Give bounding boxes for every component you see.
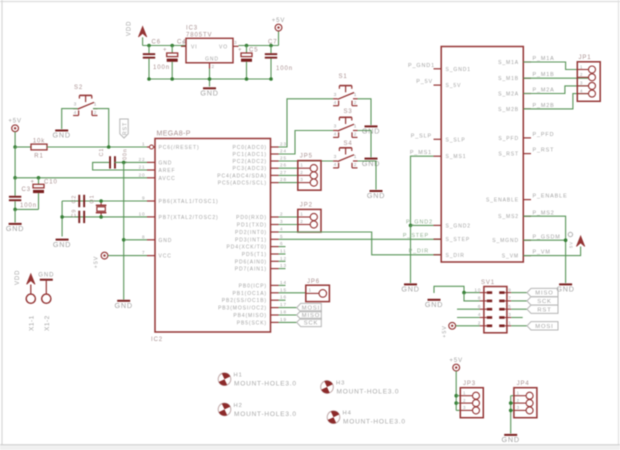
crystal Q1 — [90, 195, 107, 217]
svg-text:1: 1 — [354, 154, 358, 160]
svg-text:PC6(/RESET): PC6(/RESET) — [159, 145, 200, 151]
supply +5V left — [8, 119, 22, 148]
svg-text:MOSI: MOSI — [535, 324, 553, 330]
svg-text:4: 4 — [334, 162, 338, 168]
net label P_STEP — [403, 233, 429, 239]
svg-text:PB7(XTAL2/TOSC2): PB7(XTAL2/TOSC2) — [159, 215, 219, 221]
svg-text:IC2: IC2 — [151, 337, 163, 343]
svg-text:S_M1B: S_M1B — [498, 76, 519, 82]
svg-text:PC0(ADC0): PC0(ADC0) — [233, 145, 268, 151]
wire SV1 pin4 — [457, 317, 480, 319]
svg-text:7: 7 — [508, 296, 511, 301]
svg-text:13: 13 — [280, 263, 287, 268]
svg-text:28: 28 — [280, 177, 287, 182]
connector JP1 — [577, 55, 600, 101]
svg-text:9: 9 — [508, 287, 511, 292]
svg-text:GND: GND — [53, 240, 71, 249]
net flag RST right — [527, 305, 558, 313]
net label P_PFD — [533, 132, 555, 138]
svg-text:15: 15 — [280, 287, 287, 292]
svg-text:JP6: JP6 — [307, 279, 320, 285]
svg-text:10: 10 — [474, 287, 481, 292]
svg-text:21: 21 — [139, 165, 146, 170]
svg-text:GND: GND — [502, 435, 520, 444]
svg-text:P_GND1: P_GND1 — [408, 63, 435, 69]
svg-text:1: 1 — [300, 163, 303, 168]
svg-text:C9: C9 — [72, 209, 78, 218]
connector JP2 — [298, 202, 321, 232]
svg-text:C10: C10 — [44, 180, 58, 186]
capacitor C6 — [143, 40, 170, 80]
wire P_M1A to JP1 — [523, 62, 588, 70]
svg-text:1: 1 — [354, 124, 358, 130]
net label P_SLP — [411, 133, 432, 139]
switch S2 — [73, 85, 97, 116]
svg-text:P_VM: P_VM — [533, 250, 551, 256]
wire JP4 pins — [511, 396, 514, 434]
svg-text:PD1(TXD): PD1(TXD) — [237, 223, 267, 229]
wire PB1 to JP6 — [279, 292, 306, 294]
svg-text:+5V: +5V — [8, 119, 22, 125]
net flag MISO right — [527, 288, 558, 296]
svg-text:18: 18 — [280, 310, 287, 315]
svg-text:H1: H1 — [234, 373, 243, 379]
wire JP3 pins — [456, 396, 460, 411]
svg-text:4: 4 — [478, 312, 481, 317]
supply marker small — [568, 232, 573, 248]
switch S1 — [333, 74, 357, 106]
svg-text:+: + — [238, 48, 242, 54]
capacitor C5 — [238, 46, 258, 80]
svg-text:2: 2 — [463, 398, 466, 403]
svg-text:R1: R1 — [34, 153, 43, 159]
wire crystal left vertical — [61, 201, 63, 237]
ground driver logic — [401, 284, 419, 293]
svg-text:+: + — [31, 180, 35, 186]
wire SV1 pin7 SCK — [511, 300, 527, 302]
ground S3 — [362, 159, 380, 168]
svg-text:PD0(RXD): PD0(RXD) — [236, 215, 267, 221]
svg-text:2: 2 — [354, 162, 358, 168]
svg-text:P_ENABLE: P_ENABLE — [533, 194, 568, 200]
junction C7 top — [269, 44, 273, 48]
svg-text:+5V: +5V — [442, 325, 448, 337]
ground JP4 — [502, 435, 520, 444]
svg-text:6: 6 — [280, 241, 283, 246]
svg-text:MOUNT-HOLE3.0: MOUNT-HOLE3.0 — [343, 419, 406, 426]
svg-text:2: 2 — [280, 212, 283, 217]
svg-text:+5V: +5V — [449, 358, 463, 364]
wire XTAL2 line — [62, 216, 147, 218]
svg-text:2: 2 — [212, 64, 215, 69]
svg-text:S_RST: S_RST — [498, 152, 519, 158]
junction JP4 pin3 — [509, 409, 513, 413]
svg-text:4: 4 — [280, 227, 283, 232]
ground MCU — [115, 301, 133, 310]
svg-text:PB0(ICP): PB0(ICP) — [239, 283, 267, 289]
net flag MISO — [297, 311, 322, 319]
wire SV1 pin1 MOSI — [511, 325, 527, 327]
svg-text:3: 3 — [280, 219, 283, 224]
svg-text:VDD: VDD — [127, 21, 133, 36]
svg-text:9: 9 — [142, 196, 145, 201]
svg-text:19: 19 — [280, 317, 287, 322]
regulator IC3 7805TV — [181, 26, 239, 70]
wire XTAL1 line — [62, 200, 147, 202]
svg-text:JP2: JP2 — [300, 202, 313, 208]
net label P_MS1 — [410, 150, 432, 156]
svg-text:X1-1: X1-1 — [28, 315, 35, 331]
svg-text:S_MS1: S_MS1 — [446, 154, 467, 160]
svg-text:5: 5 — [508, 304, 511, 309]
svg-text:RST: RST — [122, 122, 128, 135]
net label P_RST — [533, 148, 555, 154]
svg-text:S2: S2 — [74, 85, 83, 91]
mount hole H1 — [216, 371, 297, 388]
svg-text:GND: GND — [362, 159, 380, 168]
junction JP3 pin2 — [454, 401, 458, 405]
wire regulator VO to +5V rail — [239, 45, 279, 47]
svg-text:S_GND2: S_GND2 — [446, 223, 471, 229]
junction P_GND2 — [409, 224, 413, 228]
svg-text:10: 10 — [139, 211, 146, 216]
wire SV1 pin9 MISO — [511, 292, 527, 294]
junction gnd rail IC3 — [208, 77, 212, 81]
wire P_M1B to JP1 — [523, 77, 588, 79]
svg-text:PB4(MISO): PB4(MISO) — [233, 313, 267, 319]
ground flag X1-2 — [38, 273, 54, 295]
svg-text:100n: 100n — [276, 66, 293, 72]
connector JP4 — [514, 381, 537, 418]
svg-text:PD4(XCK/T0): PD4(XCK/T0) — [227, 245, 267, 251]
wire PD5 stub — [279, 253, 286, 255]
ground crystal — [53, 240, 71, 249]
connector JP6 — [306, 279, 330, 302]
junction gnd rail C4 — [170, 77, 174, 81]
svg-text:S_M2A: S_M2A — [498, 92, 519, 98]
svg-text:GND: GND — [205, 57, 219, 63]
junction gnd rail C5 — [245, 77, 249, 81]
wire SV1 pin6 — [457, 308, 480, 310]
svg-text:PB6(XTAL1/TOSC1): PB6(XTAL1/TOSC1) — [159, 199, 219, 205]
svg-text:1: 1 — [517, 391, 520, 396]
wire PB2 stub — [279, 299, 286, 301]
svg-text:GND: GND — [556, 285, 574, 294]
connector JP5 — [298, 154, 321, 191]
wire regulator ground rail — [149, 69, 271, 87]
wire PD4 stub — [279, 246, 286, 248]
wire P_M2A to JP1 — [523, 86, 588, 94]
svg-text:7805TV: 7805TV — [186, 33, 212, 39]
svg-text:2: 2 — [580, 72, 583, 77]
svg-text:2: 2 — [517, 398, 520, 403]
svg-text:C7: C7 — [268, 40, 277, 46]
net label P_5V — [416, 79, 433, 85]
svg-text:PB3(MOSI/OC2): PB3(MOSI/OC2) — [218, 306, 267, 312]
svg-text:2: 2 — [300, 219, 303, 224]
ground regulator — [200, 88, 218, 97]
svg-text:GND: GND — [367, 191, 385, 200]
svg-text:3: 3 — [508, 312, 511, 317]
svg-text:S_5V: S_5V — [446, 83, 462, 89]
junction gnd rail C7 — [269, 77, 273, 81]
svg-text:24: 24 — [280, 149, 287, 154]
svg-text:GND: GND — [38, 273, 54, 279]
svg-text:P_GSDM: P_GSDM — [533, 234, 561, 240]
svg-text:P_DIR: P_DIR — [409, 249, 429, 255]
svg-text:+5V: +5V — [272, 18, 286, 24]
svg-text:100n: 100n — [20, 203, 37, 209]
svg-text:PC1(ADC1): PC1(ADC1) — [233, 152, 268, 158]
capacitor C10 — [31, 178, 58, 210]
wire +5V to R1 — [15, 146, 31, 148]
wire PC5 to JP5 pin3 — [279, 182, 298, 184]
wire gnd vertical — [123, 162, 125, 299]
svg-text:3: 3 — [334, 154, 338, 160]
svg-text:+5V: +5V — [94, 256, 100, 268]
terminal X1-1 — [26, 294, 35, 331]
wire S2 left to ground — [62, 109, 78, 129]
svg-text:25: 25 — [280, 156, 287, 161]
svg-text:PC3(ADC3): PC3(ADC3) — [233, 166, 268, 172]
svg-text:S_SLP: S_SLP — [446, 137, 466, 143]
net label P_M1B — [533, 72, 555, 78]
svg-text:10k: 10k — [33, 138, 45, 144]
wire SV1 pin5 RST — [511, 308, 527, 310]
svg-text:4: 4 — [334, 100, 338, 106]
switch S4 — [333, 141, 357, 168]
wire PB5 SCK — [279, 321, 297, 323]
svg-text:23: 23 — [280, 142, 287, 147]
wire PC1 to S3 — [279, 131, 334, 155]
capacitor C9 — [72, 209, 86, 223]
junction JP3 pin1 — [454, 394, 458, 398]
wire P_GND2 to ground — [410, 225, 412, 283]
svg-text:3: 3 — [334, 124, 338, 130]
wire AVCC rail — [15, 177, 147, 179]
svg-text:PC2(ADC2): PC2(ADC2) — [233, 159, 268, 165]
svg-text:IC3: IC3 — [186, 26, 198, 32]
net label RST flag — [120, 119, 129, 138]
svg-text:1: 1 — [300, 212, 303, 217]
svg-text:SV1: SV1 — [481, 280, 495, 286]
junction C4 top — [170, 44, 174, 48]
svg-text:1: 1 — [463, 391, 466, 396]
svg-text:1: 1 — [94, 102, 98, 108]
svg-text:3: 3 — [580, 81, 583, 86]
svg-text:8: 8 — [478, 296, 481, 301]
wire MCU GND pin8 — [124, 239, 147, 241]
wire PB3 MOSI — [279, 307, 297, 309]
junction C6 top — [147, 44, 151, 48]
svg-text:JP3: JP3 — [463, 381, 476, 387]
net label P_M1A — [533, 56, 555, 62]
svg-text:PD7(AIN1): PD7(AIN1) — [235, 267, 267, 273]
wire PB4 MISO — [279, 314, 297, 316]
junction C3 ground — [13, 208, 17, 212]
net label P_M2B — [533, 103, 555, 109]
capacitor C7 — [265, 40, 293, 80]
svg-text:3: 3 — [74, 102, 78, 108]
svg-text:PC5(ADC5/SCL): PC5(ADC5/SCL) — [218, 181, 267, 187]
svg-text:C3: C3 — [22, 187, 31, 193]
supply +5V VCC pin — [94, 252, 148, 268]
svg-text:MEGA8-P: MEGA8-P — [157, 131, 191, 138]
svg-text:AREF: AREF — [159, 168, 176, 174]
svg-text:S_STEP: S_STEP — [446, 237, 471, 243]
svg-text:4: 4 — [580, 88, 583, 93]
junction gnd vertical top — [122, 161, 126, 165]
mount hole H2 — [216, 401, 297, 418]
svg-text:2: 2 — [300, 170, 303, 175]
svg-text:GND: GND — [200, 89, 218, 98]
svg-text:17: 17 — [280, 302, 287, 307]
svg-text:H2: H2 — [234, 403, 243, 409]
junction SV1 pin10 — [462, 291, 466, 295]
wire S3 to gnd — [358, 131, 372, 158]
svg-text:5V: 5V — [569, 241, 574, 248]
wire C1 left to AREF — [93, 162, 147, 170]
svg-text:C1: C1 — [99, 148, 105, 157]
supply +5V JP3 — [449, 358, 463, 410]
svg-text:5: 5 — [280, 234, 283, 239]
svg-text:P_5V: P_5V — [416, 79, 433, 85]
wire P_VM to VDD — [523, 247, 580, 256]
wire P_GSDM — [523, 239, 565, 241]
mcu IC2 MEGA8-P — [139, 131, 287, 344]
svg-text:2: 2 — [354, 100, 358, 106]
svg-text:JP5: JP5 — [300, 154, 313, 160]
svg-text:C5: C5 — [249, 48, 258, 54]
net flag SCK right — [527, 297, 558, 305]
svg-text:PB5(SCK): PB5(SCK) — [237, 320, 267, 326]
net label P_GND1 — [408, 63, 435, 69]
svg-text:X1-2: X1-2 — [44, 315, 51, 331]
svg-text:P_STEP: P_STEP — [403, 233, 429, 239]
ground C3 — [6, 209, 24, 233]
supply +5V top right — [272, 18, 286, 46]
wire PD1 to JP2 pin2 — [279, 224, 298, 226]
header SV1 — [474, 280, 511, 333]
svg-text:11: 11 — [280, 249, 287, 254]
svg-text:20: 20 — [139, 172, 146, 177]
svg-text:2: 2 — [94, 110, 98, 116]
ground MS2 — [556, 284, 574, 293]
junction gnd rail C6 — [147, 77, 151, 81]
svg-text:S3: S3 — [344, 109, 353, 115]
svg-text:P_SLP: P_SLP — [411, 133, 432, 139]
svg-text:VCC: VCC — [159, 254, 172, 260]
net label P_M2A — [533, 88, 555, 94]
svg-text:S_VM: S_VM — [502, 254, 519, 260]
wire VDD rail to regulator VI — [143, 45, 186, 47]
wire PC3 to JP5 pin1 — [279, 167, 298, 169]
svg-text:S_ENABLE: S_ENABLE — [486, 198, 519, 204]
svg-text:GND: GND — [401, 285, 419, 294]
svg-text:GND: GND — [159, 238, 173, 244]
svg-text:3: 3 — [300, 177, 303, 182]
wire S4 to gnd — [358, 161, 377, 190]
svg-text:GND: GND — [6, 224, 24, 233]
svg-text:H4: H4 — [343, 411, 352, 417]
power net VDD arrow right — [576, 236, 584, 247]
svg-text:P_MS1: P_MS1 — [410, 150, 432, 156]
svg-text:PD5(T1): PD5(T1) — [242, 252, 267, 258]
svg-text:PD6(AIN0): PD6(AIN0) — [235, 259, 267, 265]
svg-text:H3: H3 — [336, 381, 345, 387]
svg-text:1: 1 — [508, 321, 511, 326]
net flag MOSI right — [527, 322, 558, 330]
svg-text:P_M2B: P_M2B — [533, 103, 555, 109]
capacitor C3 — [9, 178, 37, 210]
svg-text:26: 26 — [280, 163, 287, 168]
net label P_DIR — [409, 249, 429, 255]
net label P_ENABLE — [533, 194, 568, 200]
power net VDD X1-1 — [15, 270, 35, 294]
junction R1 rail — [13, 145, 17, 149]
junction P_GSDM gnd — [564, 238, 568, 242]
svg-text:SCK: SCK — [304, 321, 319, 327]
svg-text:1: 1 — [142, 142, 145, 147]
svg-text:S_MS2: S_MS2 — [498, 214, 519, 220]
svg-text:1: 1 — [182, 40, 185, 45]
svg-text:P_RST: P_RST — [533, 148, 555, 154]
wire PD0 to JP2 pin1 — [279, 216, 298, 218]
wire P_MS2 to gnd — [523, 216, 565, 283]
svg-text:14: 14 — [280, 280, 287, 285]
svg-text:VDD: VDD — [15, 270, 21, 285]
wire PD6 stub — [279, 260, 286, 262]
svg-text:12: 12 — [280, 256, 287, 261]
mount hole H4 — [325, 409, 406, 426]
connector JP3 — [460, 381, 483, 418]
svg-text:SCK: SCK — [537, 299, 552, 305]
svg-text:+: + — [163, 48, 167, 54]
svg-text:PB1(OC1A): PB1(OC1A) — [233, 291, 268, 297]
wire PB0 stub — [279, 284, 286, 286]
svg-text:VO: VO — [219, 44, 228, 50]
svg-text:3: 3 — [334, 92, 338, 98]
wire +5V vertical to AVCC rail — [14, 147, 16, 178]
svg-text:JP4: JP4 — [517, 381, 530, 387]
svg-text:S_M1A: S_M1A — [498, 60, 519, 66]
wire C1 right to GND pin 22 — [114, 161, 147, 163]
svg-text:3: 3 — [463, 405, 466, 410]
svg-text:S_M2B: S_M2B — [498, 107, 519, 113]
svg-text:P_MS2: P_MS2 — [533, 210, 555, 216]
wire PC2 to S4 — [279, 160, 334, 162]
wire PD3 to P_STEP — [279, 238, 442, 240]
ground S1 — [362, 126, 380, 135]
svg-text:PD3(INT1): PD3(INT1) — [235, 237, 267, 243]
svg-text:GND: GND — [425, 300, 443, 309]
svg-text:S4: S4 — [344, 141, 353, 147]
stepper driver module U1 — [434, 47, 532, 263]
ground SV1 — [425, 300, 443, 309]
svg-text:GND: GND — [159, 160, 173, 166]
wire SV1 pin3 stub — [511, 317, 523, 319]
svg-text:MISO: MISO — [535, 291, 553, 297]
svg-text:Q1: Q1 — [90, 195, 96, 204]
svg-text:P_M1B: P_M1B — [533, 72, 555, 78]
svg-text:PC4(ADC4/SDA): PC4(ADC4/SDA) — [217, 173, 267, 179]
svg-text:C2: C2 — [72, 195, 78, 204]
svg-text:MOUNT-HOLE3.0: MOUNT-HOLE3.0 — [337, 389, 400, 396]
svg-text:100n: 100n — [153, 65, 170, 71]
net label P_GND2 — [406, 219, 433, 225]
svg-text:1: 1 — [580, 64, 583, 69]
net label P_MS2 — [533, 210, 555, 216]
